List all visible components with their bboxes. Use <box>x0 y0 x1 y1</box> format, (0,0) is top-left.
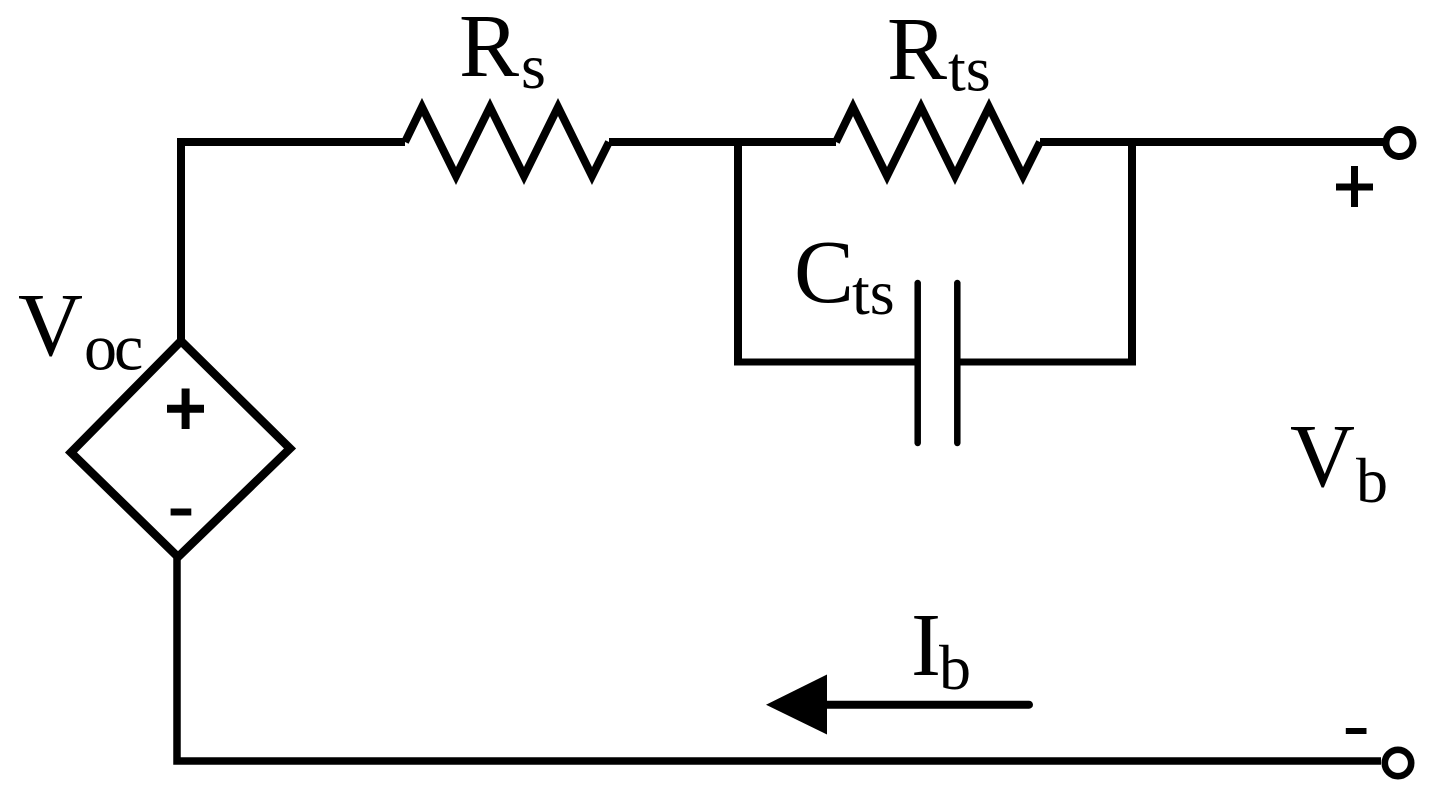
dependent source U1 diamond (Voc) <box>71 341 290 557</box>
svg-text:oc: oc <box>84 312 142 385</box>
current arrow Ib shaft <box>827 701 1029 709</box>
plus sign inside source <box>167 389 204 430</box>
svg-text:ts: ts <box>948 34 991 105</box>
wire: branch bottom left to capacitor <box>734 359 916 366</box>
wire: Rs to Rts <box>609 138 836 146</box>
svg-text:R: R <box>459 0 519 96</box>
current arrow Ib head <box>766 675 827 735</box>
wire: left vertical + top horizontal to Rs <box>181 142 405 341</box>
resistor R2 zigzag (Rts) <box>836 107 1040 176</box>
svg-text:R: R <box>887 0 947 99</box>
minus sign inside source <box>171 509 192 516</box>
svg-text:C: C <box>794 223 854 322</box>
resistor R1 zigzag (Rs) <box>405 107 609 176</box>
terminal + circle <box>1386 130 1413 157</box>
wire: Rts to + terminal <box>1040 138 1384 146</box>
plus sign at terminal <box>1336 166 1373 207</box>
wire: capacitor to branch bottom right <box>959 359 1136 366</box>
capacitor C1 plates (Cts) <box>914 283 921 443</box>
svg-text:V: V <box>1290 407 1355 506</box>
wire: left vertical of RC branch <box>734 142 742 362</box>
svg-text:I: I <box>911 596 941 695</box>
terminal - circle <box>1385 750 1411 776</box>
minus sign at terminal <box>1346 728 1367 734</box>
wire: bottom vertical from source + bottom horizontal to - terminal <box>177 557 1381 761</box>
svg-text:s: s <box>521 31 546 102</box>
svg-text:b: b <box>1356 445 1388 516</box>
svg-text:ts: ts <box>852 257 895 328</box>
wire: right vertical of RC branch <box>1128 142 1136 362</box>
svg-text:V: V <box>18 276 83 375</box>
svg-text:b: b <box>939 632 971 703</box>
